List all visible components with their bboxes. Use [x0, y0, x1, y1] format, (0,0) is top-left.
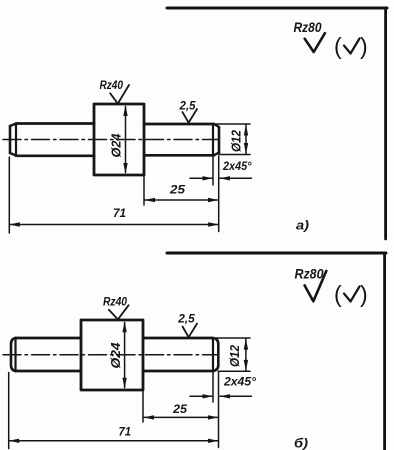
dimension 25 (view A) : right arrow — [208, 198, 219, 202]
dimension Ø12 (view B) : text — [228, 345, 242, 367]
chamfer dimension (view A) : right arrow — [220, 176, 231, 180]
extension line below big-section right edge (view A) — [143, 176, 145, 205]
default-roughness symbol (✓) view A : check — [344, 39, 360, 54]
shaft outline A : right segment top edge — [144, 123, 214, 126]
dimension Ø12 (view A) : arrow down — [244, 143, 248, 154]
extension line left end down (view A) — [8, 157, 10, 233]
shaft outline A : left segment bottom edge — [16, 154, 94, 157]
dimension Ø12 (view B) : dim line — [245, 339, 247, 370]
shaft outline B : left segment top edge — [16, 337, 82, 340]
shaft outline B : right segment bottom edge — [143, 370, 213, 373]
dimension Ø24 (view A) : arrow down — [123, 163, 127, 174]
dimension Ø12 (view B) : arrow down — [244, 360, 248, 371]
extension line left end down (view B) — [8, 373, 10, 449]
shaft outline A : right segment bottom edge — [144, 154, 214, 157]
chamfer dimension (view B) : left leader line — [190, 395, 212, 397]
chamfer dimension (view A) : left leader line — [190, 177, 212, 179]
dimension 25 (view A) : dim line — [145, 199, 219, 201]
dimension Ø12 (view A) : arrow up — [244, 125, 248, 136]
shaft outline B : right tangent line — [212, 338, 214, 371]
svg-text:Rz40: Rz40 — [100, 78, 124, 92]
dimension 25 (view B) : left arrow — [144, 415, 155, 419]
shaft outline A : left chamfer corners — [10, 124, 16, 156]
dimension Ø12 (view A) : top extension line — [216, 123, 250, 125]
svg-text:2x45°: 2x45° — [222, 161, 252, 173]
dimension 71 (view B) : left arrow — [9, 439, 20, 443]
dimension Ø12 (view A) : text — [230, 130, 244, 152]
roughness check mark 2,5 (view A) — [183, 109, 198, 123]
svg-text:2x45°: 2x45° — [223, 377, 256, 389]
svg-text:71: 71 — [113, 208, 126, 220]
dimension Ø24 (view A) : arrow up — [123, 105, 127, 116]
roughness check mark 2,5 (view B) — [183, 324, 198, 338]
dimension Ø24 (view B) : dim line — [124, 323, 126, 388]
shaft outline B : big section rectangle — [81, 320, 143, 390]
extension line right end face down (view B) — [218, 372, 220, 448]
dimension Ø24 (view B) : text — [108, 342, 123, 369]
extension line below right chamfer (view A) — [212, 156, 214, 185]
svg-text:(: ( — [334, 33, 342, 59]
shaft outline A : left chamfer line — [15, 124, 17, 156]
border frame B vertical — [383, 253, 386, 450]
border frame A horizontal — [167, 7, 387, 10]
dimension 71 (view A) : left arrow — [9, 222, 19, 226]
shaft outline B : left segment bottom edge — [16, 370, 82, 373]
chamfer dimension (view B) : left arrow — [203, 394, 214, 398]
svg-text:): ) — [360, 281, 368, 307]
dimension Ø12 (view A) : dim line — [245, 125, 247, 154]
default-roughness symbol (✓) view B : check — [344, 287, 360, 302]
svg-text:71: 71 — [119, 427, 132, 439]
svg-text:25: 25 — [169, 185, 186, 197]
roughness check mark Rz40 (view A) — [110, 85, 129, 104]
border frame A vertical — [384, 8, 387, 239]
dimension Ø12 (view B) : top extension line — [216, 337, 250, 339]
dimension Ø24 (view B) : arrow down — [122, 378, 126, 389]
shaft outline A : right end face — [218, 127, 221, 153]
chamfer dimension (view A) : left arrow — [203, 176, 214, 180]
svg-text:2,5: 2,5 — [179, 99, 196, 113]
roughness check mark Rz80 (view A) — [305, 33, 325, 52]
shaft outline B : right segment top edge — [143, 337, 213, 340]
centerline B — [3, 354, 218, 356]
svg-text:(: ( — [334, 281, 342, 307]
svg-text:б): б) — [294, 436, 308, 450]
shaft outline A : right chamfer corners — [214, 124, 219, 155]
extension line right end face down (view A) — [218, 156, 220, 232]
svg-text:Ø12: Ø12 — [230, 130, 244, 152]
extension line below right tangent (view B) — [212, 372, 214, 402]
shaft outline B : left rounded end — [11, 338, 16, 371]
shaft outline A : big section rectangle — [94, 104, 144, 175]
roughness check mark Rz40 (view B) — [109, 305, 129, 319]
dimension 71 (view A) : right arrow — [208, 222, 219, 226]
svg-text:25: 25 — [172, 404, 188, 416]
dimension 71 (view B) : right arrow — [208, 439, 219, 443]
svg-text:2,5: 2,5 — [177, 312, 195, 326]
border frame B horizontal — [167, 252, 386, 255]
dimension 71 (view B) : dim line — [9, 440, 219, 442]
dimension 25 (view A) : left arrow — [145, 198, 156, 202]
dimension 25 (view B) : right arrow — [208, 415, 219, 419]
dimension 25 (view B) : dim line — [144, 416, 219, 418]
roughness check mark Rz80 (view B) — [305, 271, 327, 301]
shaft outline A : left segment top edge — [16, 122, 94, 125]
dimension 71 (view A) : dim line — [9, 224, 218, 226]
shaft outline B : right rounded end face — [213, 338, 218, 371]
dimension Ø12 (view B) : arrow up — [244, 339, 248, 350]
extension line below big-section right edge (view B) — [142, 391, 144, 422]
shaft outline A : right chamfer line — [212, 124, 214, 155]
svg-text:Rz40: Rz40 — [103, 295, 127, 309]
svg-text:): ) — [360, 33, 368, 59]
svg-text:Rz80: Rz80 — [294, 19, 322, 35]
svg-text:Ø12: Ø12 — [228, 345, 242, 367]
chamfer dimension (view B) : right leader line — [220, 395, 252, 397]
chamfer dimension (view A) : right leader line — [220, 177, 252, 179]
shaft outline A : left end face — [9, 126, 12, 153]
dimension Ø24 (view B) : arrow up — [122, 321, 126, 332]
dimension Ø12 (view A) : bottom extension line — [219, 154, 250, 156]
dimension Ø24 (view A) : dim line — [125, 107, 127, 173]
dimension Ø12 (view B) : bottom extension line — [218, 370, 250, 372]
shaft outline B : left tangent line — [14, 338, 16, 371]
svg-text:Rz80: Rz80 — [295, 266, 324, 282]
svg-text:a): a) — [296, 218, 309, 233]
svg-text:Ø24: Ø24 — [108, 342, 123, 369]
dimension Ø24 (view A) : text — [109, 133, 124, 158]
centerline A — [3, 139, 218, 141]
svg-text:Ø24: Ø24 — [109, 133, 124, 158]
chamfer dimension (view B) : right arrow — [220, 394, 231, 398]
